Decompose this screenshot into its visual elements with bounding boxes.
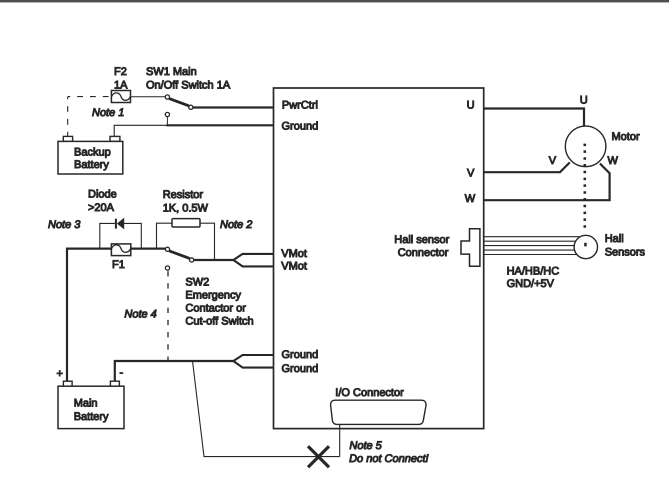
svg-text:Battery: Battery: [74, 411, 109, 423]
dashed wire SW2 lower contact down: [167, 271, 169, 360]
wire: ground to controller: [166, 124, 273, 126]
wire: main battery + riser and main line: [67, 249, 167, 382]
diode loop wire: [100, 223, 142, 247]
svg-text:On/Off Switch 1A: On/Off Switch 1A: [146, 80, 231, 92]
switch SW1: [165, 95, 193, 117]
svg-text:W: W: [608, 155, 619, 167]
svg-text:VMot: VMot: [281, 248, 307, 260]
main battery: [58, 386, 124, 428]
svg-text:Connector: Connector: [398, 247, 449, 259]
svg-text:Main: Main: [74, 398, 98, 410]
ground fork: [233, 355, 273, 368]
svg-text:Note 5: Note 5: [349, 440, 382, 452]
VMot fork: [233, 254, 273, 267]
svg-text:Cut-off Switch: Cut-off Switch: [185, 315, 253, 327]
wire V to motor: [484, 162, 570, 172]
backup battery: [58, 141, 123, 174]
motor M1: [565, 126, 606, 167]
svg-text:U: U: [580, 95, 588, 107]
svg-text:Motor: Motor: [612, 131, 640, 143]
wire: fuse F2 to SW1: [131, 96, 166, 98]
svg-text:Ground: Ground: [282, 121, 319, 133]
svg-text:F1: F1: [112, 259, 125, 271]
svg-text:Hall sensor: Hall sensor: [394, 234, 449, 246]
hall sensors circle: [574, 235, 597, 258]
wire: main battery - to ground fork: [115, 361, 234, 381]
backup battery terminals: [63, 136, 72, 141]
svg-text:Ground: Ground: [282, 349, 319, 361]
hall connector symbol: [461, 229, 480, 266]
wire W to motor: [484, 164, 610, 201]
svg-text:Ground: Ground: [282, 363, 319, 375]
svg-text:Hall: Hall: [605, 233, 624, 245]
svg-text:PwrCtrl: PwrCtrl: [282, 100, 318, 112]
svg-text:U: U: [467, 99, 475, 111]
wire: do-not-connect diagonal: [193, 361, 340, 457]
svg-text:SW1 Main: SW1 Main: [146, 66, 197, 78]
svg-text:W: W: [465, 193, 476, 205]
wire U to motor: [484, 109, 584, 127]
svg-text:-: -: [120, 367, 124, 379]
resistor loop wire: [157, 223, 215, 260]
svg-text:Note 3: Note 3: [48, 219, 81, 231]
switch SW2: [165, 247, 193, 270]
svg-text:Battery: Battery: [74, 159, 109, 171]
hall wires: [484, 237, 583, 255]
svg-text:V: V: [549, 155, 557, 167]
wire: vertical up to I/O connector: [339, 413, 341, 457]
wire: backup battery to ground junction: [114, 125, 167, 136]
svg-text:F2: F2: [114, 66, 127, 78]
svg-text:Contactor or: Contactor or: [185, 302, 246, 314]
wire: dashed backup feed vertical: [67, 97, 69, 137]
svg-text:HA/HB/HC: HA/HB/HC: [507, 266, 560, 278]
svg-text:Emergency: Emergency: [185, 289, 241, 301]
wire: SW1 lower contact stub: [166, 117, 168, 126]
svg-text:+: +: [57, 368, 63, 380]
shaft dot inside hall circle: [584, 243, 587, 247]
svg-text:1K, 0.5W: 1K, 0.5W: [163, 203, 209, 215]
svg-text:>20A: >20A: [88, 202, 115, 214]
svg-text:VMot: VMot: [281, 261, 307, 273]
svg-text:I/O Connector: I/O Connector: [335, 387, 404, 399]
top rule: [0, 0, 669, 2]
svg-text:Resistor: Resistor: [163, 189, 204, 201]
svg-text:Note 4: Note 4: [124, 308, 156, 320]
svg-text:Sensors: Sensors: [605, 247, 646, 259]
resistor R1: [172, 219, 200, 227]
X mark: [308, 446, 329, 467]
controller box U1: [274, 88, 484, 429]
svg-text:SW2: SW2: [185, 276, 209, 288]
svg-text:Backup: Backup: [74, 146, 111, 158]
wire: dashed backup feed horizontal: [68, 96, 112, 98]
fuse F2: [111, 91, 130, 103]
I/O connector: [331, 400, 426, 424]
dotted shaft line: [583, 144, 586, 231]
main battery terminals: [63, 381, 72, 386]
svg-text:Note 1: Note 1: [92, 107, 124, 119]
svg-text:1A: 1A: [114, 80, 128, 92]
fuse F1: [111, 244, 130, 256]
svg-text:GND/+5V: GND/+5V: [507, 278, 555, 290]
wire: SW1 to PwrCtrl: [193, 106, 274, 108]
wire: SW2 to VMot fork: [194, 259, 234, 261]
svg-text:Do not Connect!: Do not Connect!: [349, 453, 429, 465]
svg-text:Note 2: Note 2: [220, 219, 252, 231]
diode D1: [115, 218, 124, 230]
svg-text:Diode: Diode: [88, 189, 117, 201]
svg-text:V: V: [467, 168, 475, 180]
